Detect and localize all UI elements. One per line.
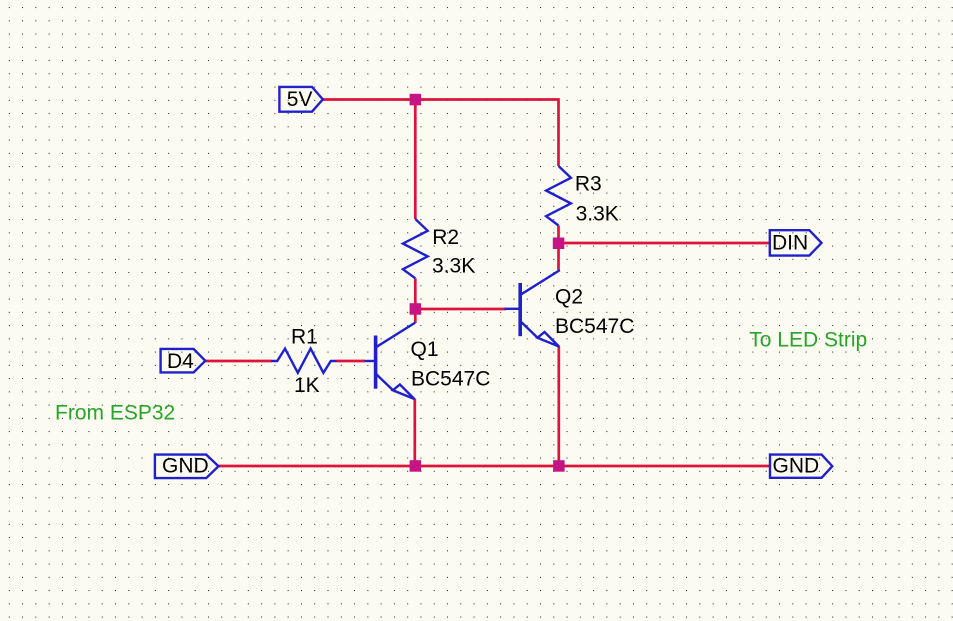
svg-text:DIN: DIN [772, 232, 808, 255]
wire R1 to Q1 base [337, 360, 366, 363]
svg-text:3.3K: 3.3K [432, 255, 475, 278]
svg-text:3.3K: 3.3K [576, 202, 619, 225]
wire junction1 down to R2 top [414, 100, 417, 220]
transistor Q2 [505, 270, 560, 346]
svg-text:GND: GND [773, 454, 820, 477]
svg-text:Q2: Q2 [555, 286, 583, 309]
net flag GND left [155, 455, 219, 479]
wire junction2 to Q2 base [415, 308, 506, 311]
wire Q2 emitter down to ground rail [557, 346, 560, 466]
svg-text:BC547C: BC547C [555, 315, 634, 338]
svg-text:Q1: Q1 [411, 338, 439, 361]
net flag DIN [770, 230, 822, 255]
net flag 5V [279, 87, 322, 112]
wire D4 to R1 [205, 360, 271, 363]
node junction ground rail / Q1 emitter [410, 460, 422, 472]
svg-text:R3: R3 [575, 173, 602, 196]
wire junction3 to DIN flag [559, 242, 771, 245]
svg-text:D4: D4 [167, 350, 194, 373]
node junction R3 bottom / DIN / Q2 collector [553, 238, 565, 250]
resistor R2 [403, 219, 428, 278]
node junction ground rail / Q2 emitter [553, 460, 565, 472]
svg-text:1K: 1K [294, 374, 320, 397]
svg-text:R1: R1 [291, 326, 318, 349]
svg-text:BC547C: BC547C [411, 368, 490, 391]
svg-text:From ESP32: From ESP32 [55, 402, 175, 425]
resistor R3 [546, 166, 571, 226]
node junction at 5V rail / R2 [410, 94, 422, 106]
node junction R2 bottom / Q1 collector / Q2 base [410, 303, 422, 315]
wire Q1 emitter down to ground rail [413, 399, 416, 467]
transistor Q1 [365, 323, 416, 399]
svg-text:5V: 5V [287, 88, 313, 111]
wire R2 bottom to junction2 [414, 278, 417, 309]
net flag GND right [770, 455, 832, 478]
wire 5V rail top: 5V tip to corner above R3 [323, 100, 559, 167]
wire R3 bottom to junction3 [557, 226, 560, 244]
wire junction2 down to Q1 collector [414, 309, 417, 323]
resistor R1 [271, 349, 336, 373]
wire junction3 down to Q2 collector [557, 243, 560, 270]
net flag D4 [161, 349, 206, 373]
svg-text:GND: GND [162, 454, 209, 477]
wire ground rail [219, 465, 771, 468]
svg-text:To LED Strip: To LED Strip [749, 329, 867, 352]
svg-text:R2: R2 [432, 226, 459, 249]
